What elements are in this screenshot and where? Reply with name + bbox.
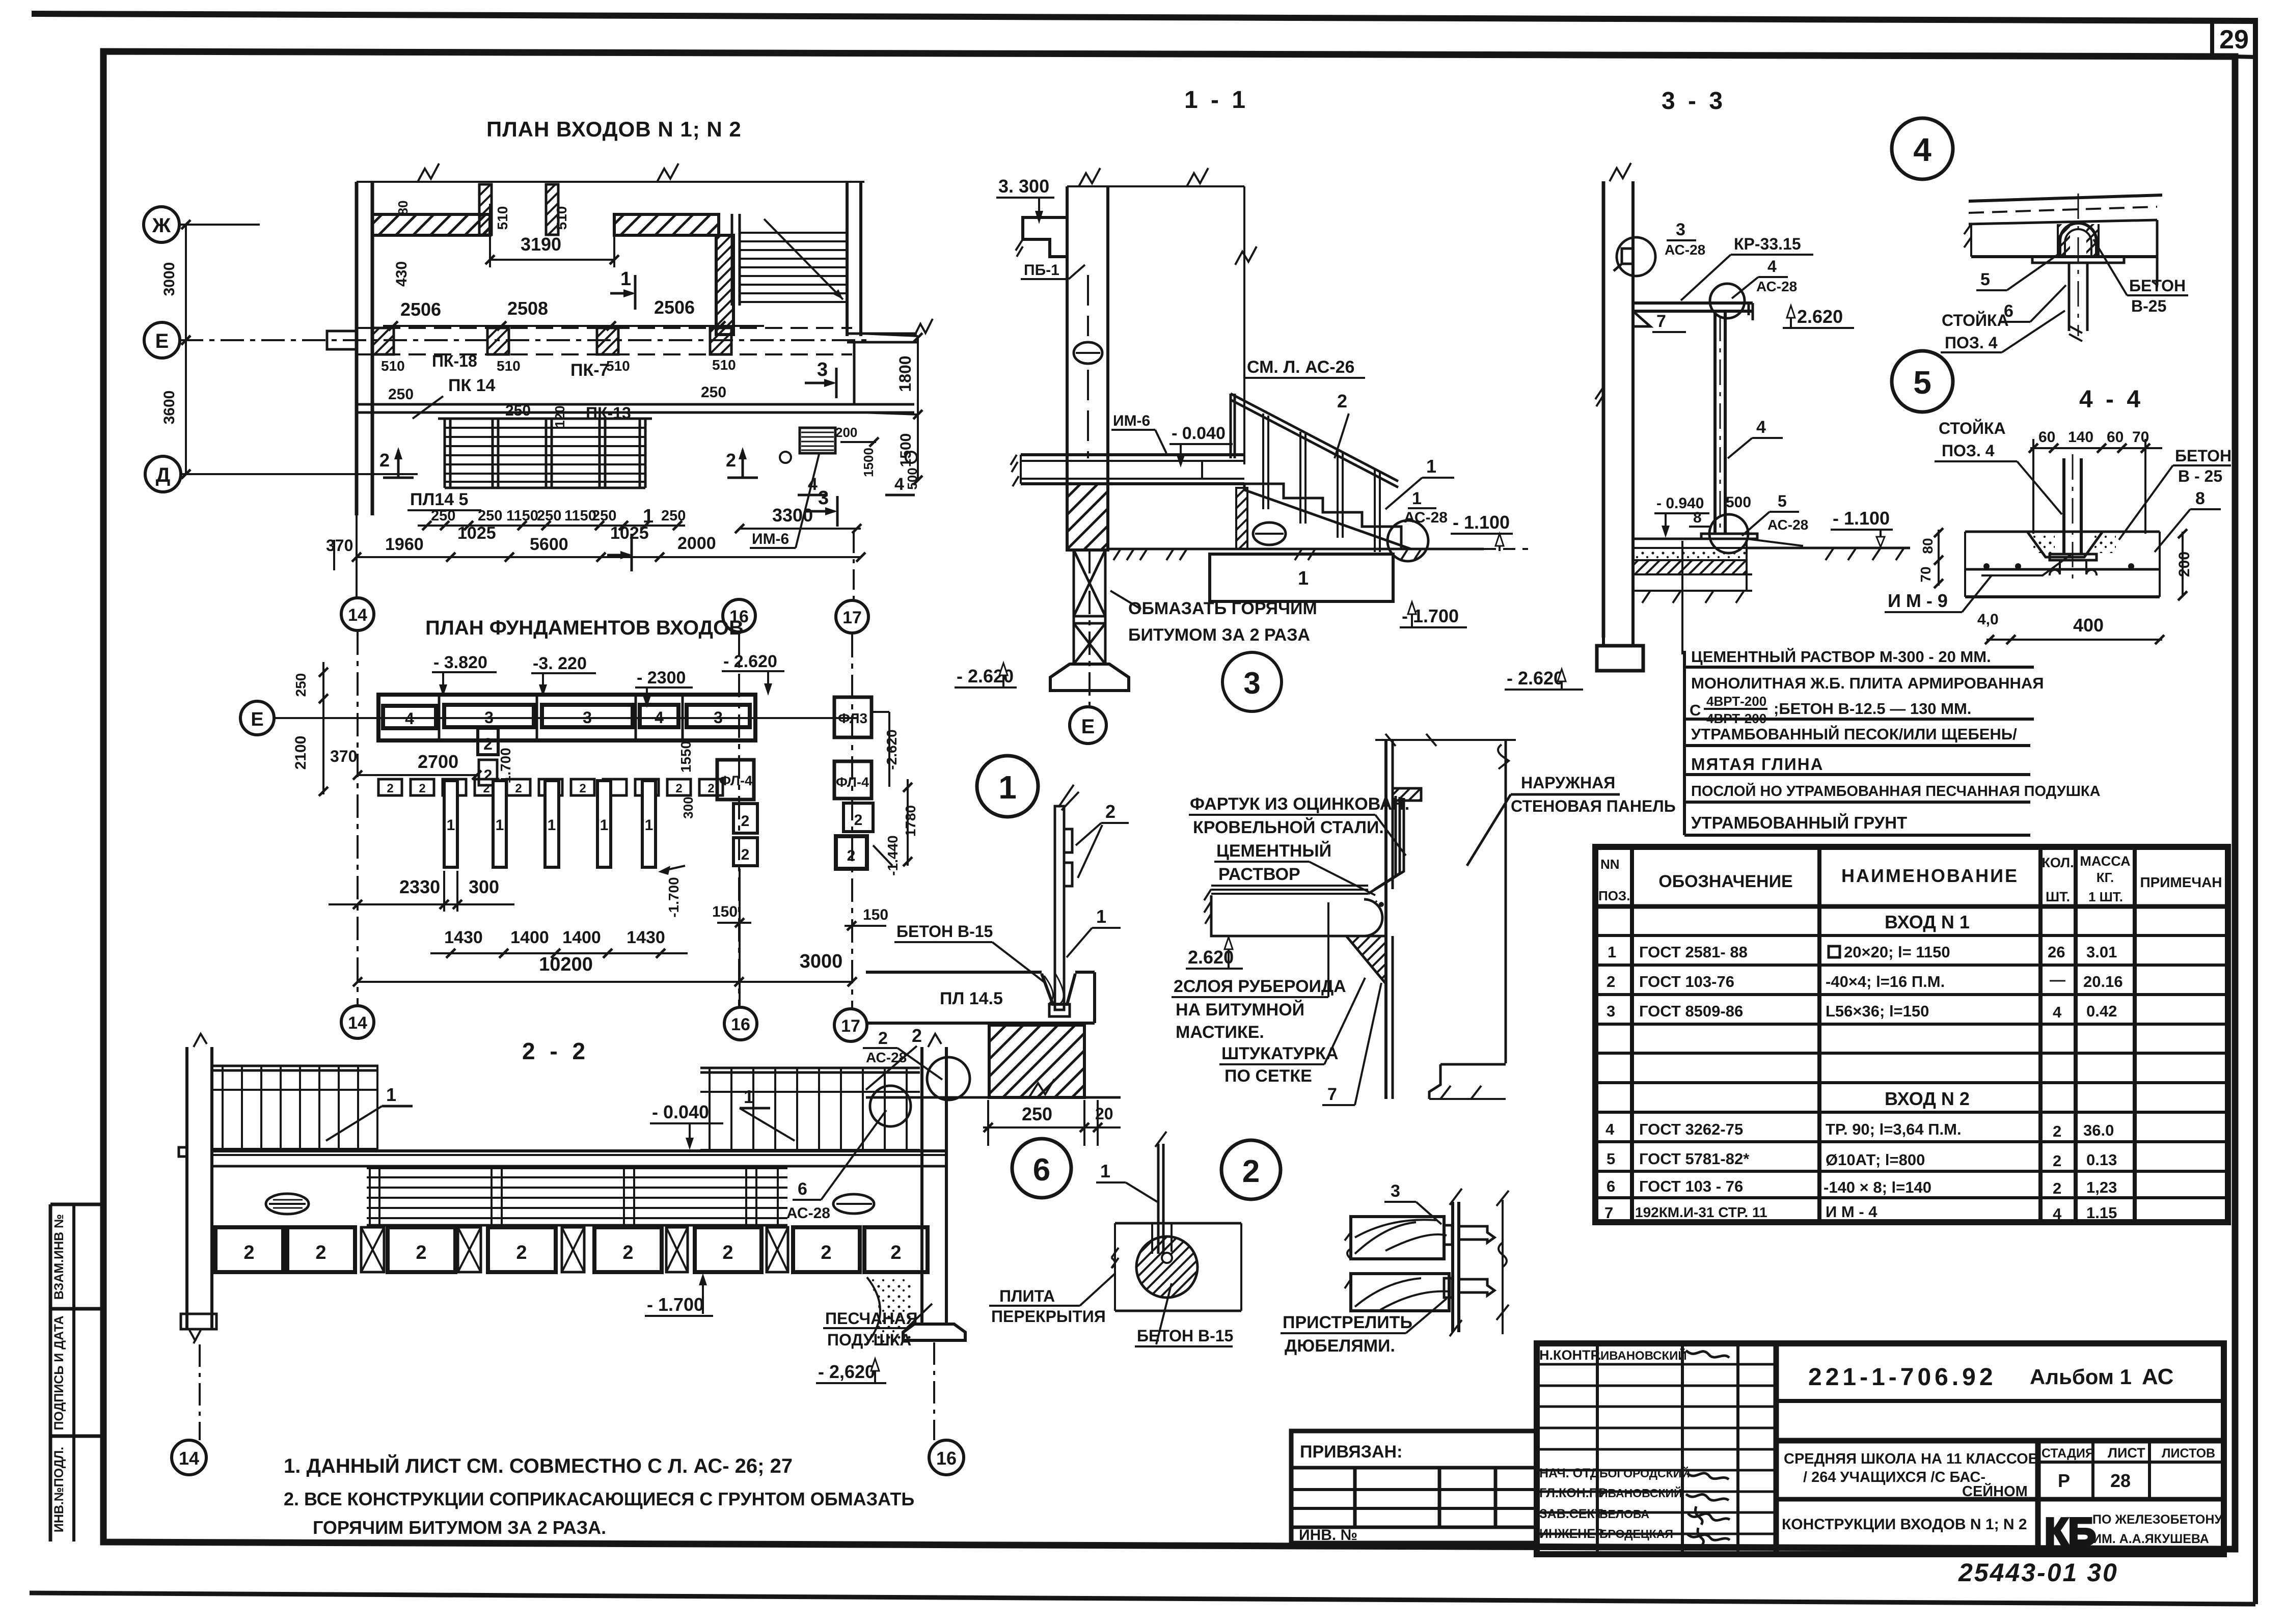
svg-text:0.42: 0.42 (2086, 1002, 2117, 1020)
svg-text:4ВРТ-200: 4ВРТ-200 (1706, 694, 1766, 709)
svg-text:В-25: В-25 (2131, 297, 2166, 315)
svg-text:ШТУКАТУРКА: ШТУКАТУРКА (1221, 1044, 1339, 1063)
svg-text:НА БИТУМНОЙ: НА БИТУМНОЙ (1176, 1000, 1304, 1020)
svg-text:ГЛ.КОН.ПР: ГЛ.КОН.ПР (1539, 1486, 1607, 1500)
svg-text:ПБ-1: ПБ-1 (1024, 262, 1059, 279)
svg-text:Е: Е (1081, 715, 1095, 738)
svg-text:14: 14 (348, 605, 367, 625)
svg-text:2: 2 (419, 782, 425, 795)
svg-text:2 - 2: 2 - 2 (522, 1038, 589, 1064)
svg-text:36.0: 36.0 (2083, 1121, 2114, 1139)
svg-text:ЦЕМЕНТНЫЙ: ЦЕМЕНТНЫЙ (1216, 841, 1331, 861)
svg-text:-40×4; l=16 П.М.: -40×4; l=16 П.М. (1826, 973, 1945, 990)
svg-text:7: 7 (1604, 1204, 1613, 1222)
svg-text:ИВАНОВСКИЙ: ИВАНОВСКИЙ (1599, 1486, 1682, 1500)
svg-text:- 1.100: - 1.100 (1453, 512, 1510, 533)
svg-text:1550: 1550 (678, 741, 694, 773)
svg-text:140: 140 (2068, 429, 2093, 446)
svg-text:2: 2 (2053, 1152, 2061, 1170)
svg-text:300: 300 (469, 876, 499, 897)
svg-text:7: 7 (1327, 1085, 1337, 1104)
svg-text:17: 17 (842, 608, 862, 627)
svg-text:3.01: 3.01 (2086, 943, 2117, 961)
svg-text:ИНЖЕНЕР: ИНЖЕНЕР (1539, 1527, 1604, 1541)
svg-text:ПЛИТА: ПЛИТА (999, 1287, 1055, 1305)
svg-text:2: 2 (579, 782, 586, 795)
svg-text:3000: 3000 (800, 951, 843, 972)
svg-text:2100: 2100 (292, 736, 309, 770)
svg-text:Альбом 1: Альбом 1 (2030, 1365, 2132, 1389)
svg-text:2: 2 (741, 813, 750, 830)
svg-text:ФАРТУК ИЗ ОЦИНКОВАН.: ФАРТУК ИЗ ОЦИНКОВАН. (1190, 794, 1409, 814)
svg-text:2: 2 (516, 1242, 527, 1263)
svg-text:1.15: 1.15 (2086, 1204, 2117, 1222)
svg-text:4: 4 (1605, 1120, 1615, 1138)
svg-text:1430: 1430 (627, 928, 665, 947)
svg-text:РАСТВОР: РАСТВОР (1218, 865, 1300, 884)
svg-text:6: 6 (798, 1179, 807, 1199)
svg-text:430: 430 (393, 261, 410, 287)
svg-text:- 3.820: - 3.820 (433, 653, 487, 672)
svg-text:СРЕДНЯЯ ШКОЛА НА 11 КЛАССОВ: СРЕДНЯЯ ШКОЛА НА 11 КЛАССОВ (1784, 1451, 2039, 1467)
svg-text:2: 2 (726, 450, 736, 471)
svg-text:120: 120 (552, 405, 567, 427)
svg-text:АС-28: АС-28 (1665, 242, 1705, 258)
svg-text:ГОСТ 103-76: ГОСТ 103-76 (1639, 973, 1734, 990)
svg-text:ГОСТ 2581- 88: ГОСТ 2581- 88 (1639, 943, 1748, 961)
svg-text:КГ.: КГ. (2097, 870, 2114, 885)
svg-text:3: 3 (1243, 666, 1260, 700)
svg-text:ДЮБЕЛЯМИ.: ДЮБЕЛЯМИ. (1285, 1336, 1395, 1356)
svg-text:20.16: 20.16 (2083, 973, 2123, 990)
svg-text:1: 1 (600, 817, 609, 834)
svg-text:7: 7 (1656, 312, 1666, 331)
svg-text:1: 1 (447, 817, 455, 834)
svg-text:6: 6 (1033, 1152, 1050, 1188)
svg-text:370: 370 (326, 536, 353, 555)
svg-text:2: 2 (847, 847, 856, 864)
svg-text:Ж: Ж (152, 214, 171, 237)
svg-text:1. ДАННЫЙ ЛИСТ СМ. СОВМЕСТН: 1. ДАННЫЙ ЛИСТ СМ. СОВМЕСТНО С Л. АС- 26… (284, 1454, 793, 1477)
svg-text:Р: Р (2058, 1470, 2070, 1491)
svg-text:20×20; l= 1150: 20×20; l= 1150 (1844, 943, 1950, 961)
svg-text:ВХОД N 2: ВХОД N 2 (1885, 1088, 1970, 1109)
svg-text:400: 400 (2073, 615, 2104, 636)
svg-text:5: 5 (1607, 1150, 1615, 1168)
svg-text:АС-28: АС-28 (866, 1050, 907, 1065)
svg-text:ИМ-6: ИМ-6 (752, 531, 789, 547)
svg-text:ПЕРЕКРЫТИЯ: ПЕРЕКРЫТИЯ (991, 1307, 1106, 1326)
svg-text:ПОЗ.: ПОЗ. (1598, 888, 1630, 903)
svg-text:ИНВ.№ПОДЛ.: ИНВ.№ПОДЛ. (52, 1447, 66, 1532)
svg-text:ПРИСТРЕЛИТЬ: ПРИСТРЕЛИТЬ (1283, 1313, 1412, 1332)
svg-text:БЕЛОВА: БЕЛОВА (1599, 1507, 1649, 1521)
svg-text:ПК 14: ПК 14 (448, 376, 496, 395)
svg-text:-2.620: -2.620 (884, 729, 900, 769)
svg-text:1: 1 (386, 1084, 396, 1105)
svg-text:МОНОЛИТНАЯ Ж.Б. ПЛИТА АРМИР: МОНОЛИТНАЯ Ж.Б. ПЛИТА АРМИРОВАННАЯ (1691, 674, 2044, 692)
svg-text:Д: Д (156, 464, 171, 486)
svg-text:ПЛАН ФУНДАМЕНТОВ ВХОДОВ: ПЛАН ФУНДАМЕНТОВ ВХОДОВ (425, 617, 744, 639)
svg-text:4: 4 (2053, 1205, 2062, 1223)
svg-text:ПО ЖЕЛЕЗОБЕТОНУ: ПО ЖЕЛЕЗОБЕТОНУ (2092, 1512, 2222, 1527)
svg-text:НАРУЖНАЯ: НАРУЖНАЯ (1521, 774, 1615, 792)
svg-text:И М - 9: И М - 9 (1888, 590, 1948, 611)
svg-text:2: 2 (416, 1242, 426, 1263)
svg-text:26: 26 (2048, 943, 2065, 961)
svg-text:370: 370 (330, 747, 357, 765)
svg-text:2: 2 (2053, 1179, 2061, 1197)
svg-text:2700: 2700 (418, 751, 458, 772)
svg-text:2СЛОЯ РУБЕРОИДА: 2СЛОЯ РУБЕРОИДА (1174, 977, 1346, 996)
svg-text:510: 510 (606, 358, 630, 374)
svg-text:-140 × 8; l=140: -140 × 8; l=140 (1824, 1178, 1931, 1196)
svg-text:БЕТОН: БЕТОН (2129, 277, 2186, 295)
svg-text:МЯТАЯ ГЛИНА: МЯТАЯ ГЛИНА (1691, 755, 1824, 774)
svg-text:- 1.700: - 1.700 (647, 1294, 704, 1315)
svg-text:1500: 1500 (861, 448, 876, 477)
svg-text:200: 200 (835, 425, 857, 440)
svg-text:221-1-706.92: 221-1-706.92 (1808, 1364, 1997, 1391)
svg-text:АС-28: АС-28 (1756, 279, 1797, 294)
svg-text:3190: 3190 (521, 234, 561, 255)
svg-text:2: 2 (515, 782, 522, 795)
svg-text:4: 4 (2053, 1003, 2062, 1021)
svg-text:60: 60 (2107, 429, 2124, 446)
svg-text:ВХОД N 1: ВХОД N 1 (1885, 912, 1970, 932)
svg-text:2506: 2506 (400, 299, 441, 320)
svg-text:ФЛ3: ФЛ3 (838, 710, 867, 726)
svg-text:2: 2 (878, 1029, 888, 1048)
svg-text:АС-28: АС-28 (1404, 509, 1448, 526)
svg-text:300: 300 (681, 796, 696, 818)
svg-text:1 - 1: 1 - 1 (1184, 87, 1248, 114)
svg-text:СМ. Л. АС-26: СМ. Л. АС-26 (1247, 357, 1354, 377)
svg-text:5600: 5600 (530, 535, 568, 554)
svg-text:4,0: 4,0 (1977, 611, 1999, 628)
svg-text:250: 250 (388, 386, 414, 403)
svg-text:2: 2 (854, 812, 863, 829)
svg-text:1400: 1400 (562, 928, 601, 947)
svg-text:ТР. 90; l=3,64 П.М.: ТР. 90; l=3,64 П.М. (1826, 1120, 1962, 1138)
svg-text:КРОВЕЛЬНОЙ СТАЛИ.: КРОВЕЛЬНОЙ СТАЛИ. (1193, 817, 1384, 837)
svg-text:80: 80 (395, 201, 411, 215)
svg-text:ПОДПИСЬ И ДАТА: ПОДПИСЬ И ДАТА (52, 1315, 66, 1430)
svg-text:КОЛ.: КОЛ. (2042, 855, 2074, 870)
svg-text:2506: 2506 (654, 297, 695, 318)
svg-text:БЕТОН В-15: БЕТОН В-15 (1137, 1327, 1233, 1345)
svg-text:ПРИМЕЧАН: ПРИМЕЧАН (2140, 874, 2222, 890)
svg-text:25443-01 30: 25443-01 30 (1958, 1558, 2118, 1587)
svg-text:1400: 1400 (510, 928, 549, 947)
svg-text:1780: 1780 (903, 805, 918, 837)
svg-text:10200: 10200 (539, 954, 593, 975)
svg-text:ПОСЛОЙ НО УТРАМБОВАННАЯ ПЕСЧ: ПОСЛОЙ НО УТРАМБОВАННАЯ ПЕСЧАННАЯ ПОДУШК… (1691, 782, 2101, 800)
svg-text:1025: 1025 (610, 524, 649, 543)
svg-text:Ø10АТ; l=800: Ø10АТ; l=800 (1826, 1151, 1925, 1169)
svg-text:2: 2 (1607, 973, 1615, 990)
svg-text:СТАДИЯ: СТАДИЯ (2042, 1446, 2094, 1461)
svg-text:1150: 1150 (506, 508, 538, 524)
svg-text:4: 4 (808, 475, 818, 494)
svg-text:510: 510 (497, 358, 521, 374)
svg-text:ПЛАН ВХОДОВ N 1; N 2: ПЛАН ВХОДОВ N 1; N 2 (486, 117, 742, 141)
svg-text:4: 4 (655, 708, 664, 727)
svg-text:70: 70 (1918, 566, 1934, 582)
svg-text:2: 2 (387, 782, 393, 795)
svg-text:ПРИВЯЗАН:: ПРИВЯЗАН: (1300, 1442, 1402, 1462)
svg-text:NN: NN (1600, 857, 1620, 872)
svg-text:АС-28: АС-28 (786, 1205, 830, 1222)
svg-text:1: 1 (1096, 906, 1106, 927)
svg-text:В - 25: В - 25 (2178, 467, 2222, 485)
svg-text:-1.440: -1.440 (885, 835, 901, 875)
svg-text:- 1.100: - 1.100 (1833, 508, 1890, 529)
svg-text:ШТ.: ШТ. (2046, 889, 2070, 904)
svg-text:1,23: 1,23 (2086, 1178, 2117, 1196)
svg-text:3. 300: 3. 300 (998, 176, 1049, 197)
svg-text:2: 2 (1337, 391, 1347, 411)
svg-text:1500: 1500 (897, 433, 914, 467)
svg-text:- 0.040: - 0.040 (1172, 424, 1226, 443)
svg-text:1: 1 (1100, 1161, 1110, 1181)
svg-text:510: 510 (495, 206, 510, 230)
svg-text:ГОСТ 5781-82*: ГОСТ 5781-82* (1639, 1150, 1750, 1168)
svg-text:1: 1 (548, 817, 556, 834)
svg-text:1: 1 (620, 268, 631, 290)
svg-text:2.620: 2.620 (1797, 306, 1843, 327)
svg-text:510: 510 (554, 206, 569, 230)
svg-text:2: 2 (890, 1242, 901, 1263)
svg-text:6: 6 (1607, 1177, 1615, 1195)
svg-text:16: 16 (731, 1015, 750, 1034)
svg-text:2: 2 (707, 782, 714, 795)
svg-text:80: 80 (1920, 538, 1936, 554)
svg-text:4ВРТ-200: 4ВРТ-200 (1706, 711, 1766, 726)
svg-text:3: 3 (714, 708, 723, 727)
svg-text:3300: 3300 (772, 505, 813, 526)
svg-text:2: 2 (675, 782, 682, 795)
svg-text:1430: 1430 (444, 928, 483, 947)
svg-text:2: 2 (315, 1242, 326, 1263)
svg-text:ИМ. А.А.ЯКУШЕВА: ИМ. А.А.ЯКУШЕВА (2092, 1532, 2209, 1546)
svg-text:- 2300: - 2300 (637, 668, 686, 687)
svg-text:2: 2 (741, 846, 750, 863)
svg-text:Е: Е (155, 330, 169, 352)
svg-text:4: 4 (1913, 131, 1931, 168)
svg-text:510: 510 (712, 357, 736, 373)
svg-text:1: 1 (1298, 568, 1309, 589)
svg-text:—: — (2050, 971, 2065, 988)
svg-text:3: 3 (1676, 220, 1685, 239)
svg-text:Е: Е (251, 709, 263, 730)
svg-text:КР-33.15: КР-33.15 (1734, 235, 1801, 253)
svg-text:МАСТИКЕ.: МАСТИКЕ. (1176, 1023, 1264, 1042)
svg-text:-1.700: -1.700 (666, 877, 682, 917)
svg-text:ОБМАЗАТЬ ГОРЯЧИМ: ОБМАЗАТЬ ГОРЯЧИМ (1128, 599, 1317, 618)
svg-text:3: 3 (817, 359, 828, 380)
svg-text:250: 250 (431, 508, 455, 524)
svg-text:2: 2 (912, 1025, 922, 1046)
svg-text:70: 70 (2132, 429, 2149, 446)
svg-text:1: 1 (496, 817, 504, 834)
svg-text:3000: 3000 (161, 262, 178, 296)
svg-text:3: 3 (818, 487, 829, 509)
svg-text:ГОСТ 8509-86: ГОСТ 8509-86 (1639, 1002, 1743, 1020)
svg-text:СТОЙКА: СТОЙКА (1942, 311, 2009, 329)
svg-text:И М - 4: И М - 4 (1826, 1203, 1877, 1221)
svg-text:СТЕНОВАЯ ПАНЕЛЬ: СТЕНОВАЯ ПАНЕЛЬ (1511, 797, 1676, 815)
svg-text:- 2.620: - 2.620 (1507, 668, 1564, 689)
svg-text:200: 200 (2176, 552, 2193, 577)
svg-text:2: 2 (722, 1242, 733, 1263)
svg-text:3: 3 (484, 708, 494, 727)
svg-text:ОБОЗНАЧЕНИЕ: ОБОЗНАЧЕНИЕ (1658, 872, 1792, 891)
svg-text:5: 5 (1913, 364, 1931, 401)
svg-text:ГОРЯЧИМ БИТУМОМ ЗА 2 РАЗА.: ГОРЯЧИМ БИТУМОМ ЗА 2 РАЗА. (313, 1517, 606, 1538)
svg-text:БЕТОН В-15: БЕТОН В-15 (896, 922, 993, 941)
svg-text:ГОСТ 3262-75: ГОСТ 3262-75 (1639, 1120, 1743, 1138)
svg-text:2000: 2000 (677, 534, 716, 553)
svg-text:ЦЕМЕНТНЫЙ РАСТВОР М-300 -: ЦЕМЕНТНЫЙ РАСТВОР М-300 - 20 ММ. (1691, 647, 1991, 666)
svg-text:- 2,620: - 2,620 (818, 1361, 875, 1382)
svg-text:250: 250 (1022, 1104, 1052, 1124)
svg-text:ИМ-6: ИМ-6 (1113, 412, 1150, 429)
svg-text:1800: 1800 (896, 355, 914, 392)
svg-text:2: 2 (1242, 1154, 1260, 1189)
svg-text:ФЛ-4: ФЛ-4 (719, 773, 752, 788)
svg-text:16: 16 (729, 607, 749, 626)
svg-text:192КМ.И-31 СТР. 11: 192КМ.И-31 СТР. 11 (1635, 1204, 1767, 1220)
svg-text:- 2.620: - 2.620 (723, 652, 777, 671)
svg-text:УТРАМБОВАННЫЙ ПЕСОК/ИЛИ ЩЕБЕ: УТРАМБОВАННЫЙ ПЕСОК/ИЛИ ЩЕБЕНЬ/ (1691, 725, 2017, 743)
svg-text:2. ВСЕ КОНСТРУКЦИИ СОПРИКАС: 2. ВСЕ КОНСТРУКЦИИ СОПРИКАСАЮЩИЕСЯ С ГРУ… (284, 1489, 914, 1509)
svg-text:2330: 2330 (399, 876, 440, 897)
svg-text:ПОЗ. 4: ПОЗ. 4 (1945, 334, 1998, 352)
svg-text:3: 3 (1391, 1181, 1400, 1201)
svg-text:2: 2 (2053, 1122, 2061, 1140)
svg-text:250: 250 (505, 402, 531, 419)
svg-text:СЕЙНОМ: СЕЙНОМ (1962, 1482, 2028, 1500)
svg-text:510: 510 (381, 358, 405, 374)
svg-text:БЕТОН: БЕТОН (2175, 447, 2231, 465)
svg-text:L56×36; l=150: L56×36; l=150 (1826, 1002, 1929, 1020)
svg-text:1: 1 (1412, 489, 1422, 508)
svg-text:БРОДЕЦКАЯ: БРОДЕЦКАЯ (1599, 1527, 1673, 1540)
svg-text:1 ШТ.: 1 ШТ. (2088, 889, 2123, 904)
svg-text:2: 2 (243, 1242, 254, 1263)
svg-text:250: 250 (293, 673, 309, 697)
svg-text:2: 2 (483, 782, 489, 795)
svg-text:ФЛ-4: ФЛ-4 (836, 775, 869, 790)
svg-text:АС-28: АС-28 (1767, 517, 1808, 533)
svg-text:1025: 1025 (457, 524, 496, 543)
svg-text:БОГОРОДСКИЙ: БОГОРОДСКИЙ (1599, 1466, 1690, 1480)
svg-text:ПЛ14 5: ПЛ14 5 (410, 490, 468, 509)
svg-text:ЛИСТ: ЛИСТ (2108, 1445, 2145, 1461)
svg-text:5: 5 (1778, 492, 1787, 510)
svg-text:4: 4 (405, 709, 414, 728)
svg-text:2: 2 (483, 735, 493, 753)
svg-text:3: 3 (1607, 1002, 1615, 1020)
svg-text:2: 2 (1105, 801, 1115, 822)
svg-text:14: 14 (179, 1448, 199, 1469)
svg-text:1960: 1960 (385, 535, 424, 554)
svg-text:28: 28 (2110, 1470, 2131, 1491)
svg-text:17: 17 (841, 1016, 860, 1036)
svg-text:НАИМЕНОВАНИЕ: НАИМЕНОВАНИЕ (1841, 865, 2019, 886)
svg-text:Н.КОНТР.: Н.КОНТР. (1539, 1347, 1601, 1363)
svg-text:3: 3 (583, 708, 592, 727)
svg-text:16: 16 (936, 1448, 957, 1469)
svg-text:-3. 220: -3. 220 (533, 654, 587, 673)
svg-text:БИТУМОМ ЗА 2 РАЗА: БИТУМОМ ЗА 2 РАЗА (1128, 625, 1310, 645)
svg-text:ПЛ 14.5: ПЛ 14.5 (940, 989, 1003, 1008)
svg-text:250: 250 (478, 508, 502, 524)
svg-text:2: 2 (821, 1242, 831, 1263)
svg-text:ВЗАМ.ИНВ №: ВЗАМ.ИНВ № (52, 1214, 66, 1300)
svg-text:2508: 2508 (507, 298, 548, 319)
svg-text:0.13: 0.13 (2086, 1151, 2117, 1169)
svg-text:/ 264 УЧАЩИХСЯ /С БАС-: / 264 УЧАЩИХСЯ /С БАС- (1803, 1469, 1985, 1485)
svg-text:ПОЗ. 4: ПОЗ. 4 (1942, 442, 1995, 460)
svg-text:1: 1 (744, 1086, 754, 1107)
svg-text:ИНВ. №: ИНВ. № (1299, 1527, 1357, 1544)
svg-text:250: 250 (701, 384, 726, 401)
svg-text:НАЧ. ОТД: НАЧ. ОТД (1539, 1466, 1599, 1480)
svg-text:4: 4 (1756, 418, 1766, 437)
svg-text:8: 8 (2195, 489, 2205, 508)
svg-text:14: 14 (348, 1013, 367, 1033)
svg-text:29: 29 (2219, 25, 2249, 54)
svg-text:4 - 4: 4 - 4 (2079, 386, 2143, 413)
svg-text:150: 150 (712, 903, 738, 920)
svg-text:УТРАМБОВАННЫЙ ГРУНТ: УТРАМБОВАННЫЙ ГРУНТ (1691, 813, 1907, 832)
svg-text:;БЕТОН В-12.5 — 130 ММ.: ;БЕТОН В-12.5 — 130 ММ. (1774, 700, 1971, 718)
svg-text:С: С (1690, 701, 1701, 719)
svg-text:1: 1 (1608, 943, 1616, 961)
svg-text:ПО СЕТКЕ: ПО СЕТКЕ (1224, 1066, 1312, 1086)
svg-text:8: 8 (1693, 509, 1702, 526)
svg-text:4: 4 (1767, 257, 1777, 276)
svg-text:ПК-18: ПК-18 (432, 352, 477, 370)
svg-text:ЛИСТОВ: ЛИСТОВ (2162, 1446, 2215, 1461)
svg-text:ПК-7: ПК-7 (570, 361, 609, 380)
svg-text:ГОСТ 103 - 76: ГОСТ 103 - 76 (1639, 1177, 1743, 1195)
svg-text:2: 2 (379, 450, 390, 471)
svg-text:3600: 3600 (161, 391, 178, 425)
svg-text:АС: АС (2142, 1364, 2173, 1389)
svg-text:ЗАВ.СЕКТ: ЗАВ.СЕКТ (1539, 1507, 1603, 1521)
svg-text:5: 5 (1980, 270, 1990, 289)
svg-text:СТОЙКА: СТОЙКА (1939, 419, 2006, 437)
svg-text:500: 500 (1726, 494, 1751, 511)
svg-text:1: 1 (1426, 456, 1436, 477)
svg-text:ИВАНОВСКИЙ: ИВАНОВСКИЙ (1600, 1348, 1687, 1363)
svg-text:3 - 3: 3 - 3 (1662, 88, 1726, 115)
svg-text:2: 2 (622, 1242, 633, 1263)
svg-text:60: 60 (2038, 429, 2055, 446)
svg-text:4: 4 (894, 475, 904, 494)
svg-text:1: 1 (645, 817, 654, 834)
svg-text:МАССА: МАССА (2080, 854, 2130, 869)
svg-text:1: 1 (998, 769, 1017, 806)
svg-text:150: 150 (863, 906, 888, 923)
svg-text:КОНСТРУКЦИИ ВХОДОВ N 1; N 2: КОНСТРУКЦИИ ВХОДОВ N 1; N 2 (1782, 1516, 2027, 1533)
svg-text:КБ: КБ (2045, 1510, 2096, 1554)
svg-text:- 0.040: - 0.040 (652, 1102, 709, 1122)
